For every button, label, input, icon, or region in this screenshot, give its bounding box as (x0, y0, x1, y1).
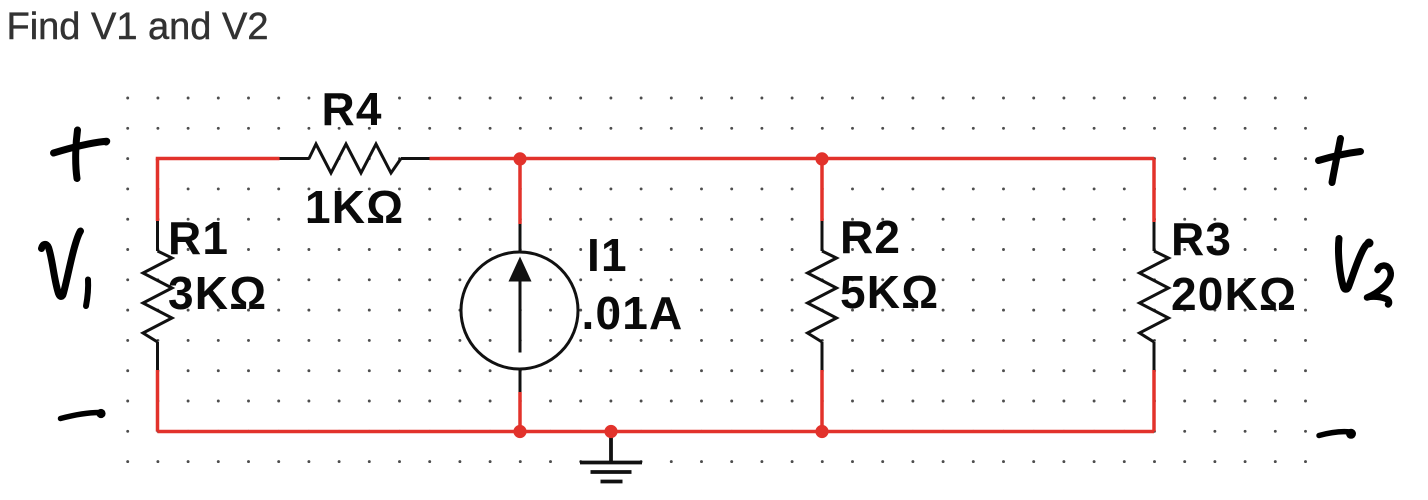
resistor R2 zigzag (808, 251, 837, 342)
junction node top at R2 (815, 152, 828, 165)
resistor R3 leads (1153, 222, 1156, 370)
handwritten minus left (61, 413, 100, 419)
junction node top at I1 (513, 152, 526, 165)
wire bottom rail (red) (158, 430, 1155, 434)
resistor R3 zigzag (1140, 251, 1169, 342)
handwritten minus right (1319, 432, 1351, 436)
wire left vertical upper (red) (156, 159, 160, 222)
current source I1 arrow shaft (519, 278, 522, 353)
current source I1 leads (519, 224, 522, 392)
resistor R1 zigzag (143, 251, 172, 342)
svg-text:5KΩ: 5KΩ (840, 266, 939, 318)
handwritten V2 right (1339, 239, 1370, 290)
svg-text:R2: R2 (840, 211, 901, 263)
resistor R1 leads (156, 221, 159, 370)
svg-text:.01A: .01A (582, 287, 684, 339)
svg-text:R3: R3 (1171, 213, 1232, 265)
junction node bottom at I1 (513, 425, 526, 438)
wire R2 bottom lead (red) (820, 370, 824, 432)
ground symbol (580, 434, 642, 482)
svg-text:I1: I1 (587, 229, 628, 281)
wire I1 top lead (red) (518, 159, 522, 224)
handwritten plus right (1332, 139, 1341, 183)
resistor R4 zigzag (309, 144, 401, 173)
junction node bottom at ground (604, 425, 617, 438)
svg-text:20KΩ: 20KΩ (1171, 268, 1297, 320)
current source I1 circle (461, 252, 578, 369)
wire I1 bottom lead (red) (518, 392, 522, 432)
junction node bottom at R2 (815, 425, 828, 438)
wire top-left to R4 (red) (158, 159, 1155, 432)
wire R4 to top-right corner (red) (430, 157, 1155, 161)
resistor R2 leads (821, 221, 824, 370)
wire left vertical lower (red) (156, 370, 160, 432)
handwritten plus left (76, 130, 78, 179)
wire right vertical lower (red) (1152, 370, 1156, 432)
svg-text:R4: R4 (322, 83, 383, 135)
svg-text:1KΩ: 1KΩ (305, 181, 404, 233)
current source I1 arrowhead (509, 257, 532, 282)
svg-text:Find V1 and V2: Find V1 and V2 (7, 6, 269, 48)
svg-text:R1: R1 (168, 212, 229, 264)
handwritten V1 left (42, 231, 81, 296)
svg-text:3KΩ: 3KΩ (168, 267, 267, 319)
resistor R4 leads (280, 157, 430, 160)
wire R2 top lead (red) (820, 159, 824, 221)
wire right vertical upper (red) (1152, 159, 1156, 223)
